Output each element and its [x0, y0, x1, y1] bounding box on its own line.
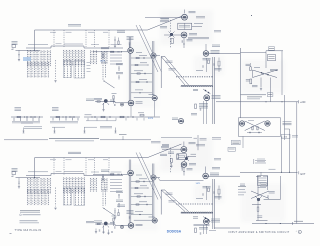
wire +100 feed (top right) — [241, 93, 273, 97]
interstage link (channel B) — [131, 212, 153, 215]
interstage coupling row 3 (channel B) — [131, 194, 153, 197]
vertical output pair (channel A) — [213, 57, 215, 124]
transistor Q13 (channel A) — [103, 99, 110, 105]
fan interior labels (channel B) — [166, 193, 176, 202]
corner mark — [10, 232, 12, 234]
svg-text:INPUT AMPLIFIER & SWITCHING CI: INPUT AMPLIFIER & SWITCHING CIRCUIT — [229, 231, 290, 234]
interstage coupling row 2 (channel B) — [131, 186, 148, 189]
wire switch tubes left (channel A) — [145, 18, 182, 35]
delay line upper contact row (channel B) — [176, 203, 213, 205]
transistor Q114 (channel B) — [120, 225, 123, 228]
label box +12.2 (top right) — [268, 55, 276, 61]
switch shaft dashed line (channel A) — [55, 60, 57, 79]
wire multivibrator to interconnect boxes — [242, 136, 244, 148]
triode V243A (channel B upper) — [128, 170, 134, 176]
switch SW102 wafer 4 contacts (channel B) — [103, 189, 115, 216]
cathode network below V263B — [195, 224, 216, 234]
density shading commutator B — [160, 138, 213, 172]
grid wire to V263B (channel B) — [158, 178, 204, 181]
page registration mark — [251, 15, 252, 16]
switch SW101 wafer 1 contacts (channel B) — [27, 178, 51, 195]
triode V143B (channel A upper) — [151, 53, 156, 58]
diagonal wire bus-to-switch tube (channel A) — [148, 16, 182, 30]
switch SW102 wafer 1 contacts (channel B) — [27, 189, 49, 205]
wire input B to attenuator — [16, 177, 41, 178]
switching crossover junction (channel B) — [184, 156, 189, 161]
compensating capacitor C7 (channel A) — [116, 73, 123, 80]
output amplifier tube V263B (channel B) — [203, 219, 220, 225]
svg-text:EXT: EXT — [301, 173, 306, 176]
triode V133B (channel A) — [134, 95, 158, 117]
input connector J1 (channel A) — [12, 42, 18, 51]
interstage bus with components (channel A) — [84, 113, 160, 121]
column value labels (channel B wafers) — [28, 170, 122, 173]
triode V233B (channel B) — [134, 217, 158, 223]
wire collector (bottom right) — [264, 176, 281, 200]
density shading right network B — [241, 184, 285, 222]
neon switching box B167 — [178, 23, 203, 29]
switch SW1 wafer 2 contacts (channel A) — [63, 50, 85, 67]
grid components cluster (channel B tubes) — [114, 205, 134, 219]
labels left of switch tubes (channel B) — [160, 146, 169, 155]
wire switch tube left (channel B) — [162, 144, 181, 149]
density shading plate cluster A — [194, 56, 224, 75]
preamp input wire (channel B) — [86, 221, 115, 225]
long vertical x297 (right) — [296, 102, 298, 224]
interstage link (channel A) — [131, 90, 153, 94]
wire Q113 collector (channel B) — [108, 224, 129, 225]
blue annotation (attenuator right) — [100, 61, 106, 63]
triode V243B (channel B upper) — [151, 175, 156, 180]
long vertical x284 (right) — [284, 95, 286, 140]
wire Q13 collector (channel A) — [108, 102, 129, 103]
interstage coupling row 2 (channel A) — [131, 63, 148, 66]
light blue highlight (attenuator) — [23, 57, 31, 61]
cross-coupled signal wires (top right) — [253, 68, 279, 78]
commutator right labels (channel B) — [196, 145, 221, 160]
triode V133A (channel A) — [128, 100, 142, 116]
switch SW2 wafer 2 contacts (channel A) — [63, 61, 71, 78]
input RC to ground (channel A) — [18, 50, 20, 61]
transistor Q113 (channel B) — [103, 222, 110, 228]
note labels left (bottom right) — [238, 187, 246, 195]
interstage coupling row 1 (channel A) — [131, 55, 153, 58]
delay line coil winding (channel A) — [181, 85, 212, 86]
emitter network R21 C21 (channel A) — [112, 94, 117, 106]
plate supply boundary vertical (top right) — [240, 48, 242, 118]
delay line coil winding (channel B) — [181, 212, 212, 213]
rail labels above divider — [24, 126, 112, 128]
blue annotation (channel A mid) — [148, 118, 154, 120]
vertical feed right of commutator B — [198, 135, 207, 150]
attenuator value table (channel A) — [110, 52, 122, 64]
cathode network below V163B — [191, 101, 208, 124]
triode V233A (channel B) — [128, 223, 142, 229]
density shading right network A — [241, 60, 285, 93]
labels above EXT area — [254, 159, 266, 164]
delay-line fan wires (channel A) — [161, 57, 188, 89]
multivibrator label V193 — [283, 122, 292, 125]
switch SW1 wafer 3 contacts (channel A) — [90, 50, 97, 64]
resistor R259 and ground (channel B) — [170, 159, 172, 168]
switch SW2 wafer 3 contacts (channel A) — [74, 61, 85, 79]
ground preamp (channel A) — [102, 103, 104, 111]
+100 supply labels — [282, 134, 299, 138]
output cathode follower V163A — [203, 44, 240, 56]
ground preamp (channel B) — [102, 226, 104, 234]
switch shaft dashed line (channel B) — [55, 188, 57, 207]
input coupling network wire (channel A left) — [11, 116, 43, 123]
input RC to ground (channel B) — [18, 178, 20, 189]
wire preamp row upper (channel A) — [93, 48, 160, 61]
emitter network (bottom right) — [252, 201, 262, 221]
resistor R158 — [160, 19, 173, 44]
wire preamp row upper (channel B) — [93, 170, 160, 183]
EXT trigger wire — [240, 169, 306, 176]
label above stamp — [194, 224, 210, 225]
vertical feeds (bottom right) — [256, 176, 268, 196]
wire -12.2 supply (bottom) — [252, 221, 314, 225]
svg-text:TYPE 3A3 PLUG-IN: TYPE 3A3 PLUG-IN — [15, 229, 42, 232]
switch shaft dashed (commutator B) — [169, 148, 171, 174]
triode V143A (channel A upper) — [128, 48, 134, 54]
attenuator value table (channel B) — [110, 180, 122, 192]
ground at switch shaft B — [54, 208, 56, 210]
interstage coupling row 4 (channel A) — [131, 79, 153, 82]
multivibrator cross-coupling — [245, 121, 265, 134]
vertical output pair (channel B) — [213, 179, 240, 229]
density shading commutator A — [160, 10, 213, 45]
density shading center column A — [126, 40, 158, 108]
switch tube V153A — [182, 10, 196, 21]
plate load cluster (channel B output) — [196, 186, 222, 201]
wires from multivibrator down — [282, 129, 290, 172]
input resistor network R10 label (channel A) — [15, 108, 22, 111]
plate load cluster (channel A output) — [196, 58, 222, 73]
column value labels (channel A wafers) — [28, 43, 122, 46]
input coupling network wire (channel A right) — [50, 116, 80, 123]
diagonal signal pair (channel switch B) — [136, 153, 162, 200]
switching crossover junction — [169, 32, 175, 38]
output cathode follower V263A (channel B) — [203, 167, 240, 179]
labels left of switch tubes (channel A) — [160, 19, 169, 28]
capacitor C158 — [182, 38, 193, 48]
capacitor C258 — [182, 167, 193, 175]
grid components cluster (channel A tubes) — [114, 31, 134, 48]
switch index labels (channel A) — [87, 63, 91, 72]
emitter network (channel B) — [112, 216, 117, 228]
wire to channel B note — [188, 38, 209, 39]
channel divider rule with note — [4, 134, 161, 143]
trigger pickoff tube V173 — [172, 118, 184, 124]
switch SW102 wafer 3 contacts (channel B) — [74, 188, 85, 206]
plate line pair left (channel B) — [129, 160, 131, 223]
switch tube V253A (channel B) — [181, 142, 196, 153]
switch SW102 wafer 2 contacts (channel B) — [63, 188, 71, 205]
bus drop labels (channel B) — [50, 159, 108, 161]
vertical feed wires (top right) — [266, 51, 282, 95]
label SEE PARTS LIST (channel A bus) — [68, 25, 81, 26]
fan interior labels (channel A) — [166, 61, 176, 70]
density shading center column B — [126, 163, 158, 231]
switch SW101 wafer 2 contacts (channel B) — [63, 177, 85, 194]
label SEE PARTS LIST (channel B bus) — [68, 152, 81, 153]
blue annotation (channel B mid) — [196, 183, 202, 185]
input connector J101 (channel B) — [12, 169, 18, 179]
svg-text:+100: +100 — [282, 137, 288, 139]
switch SW1 wafer 1 contacts (channel A) — [27, 50, 51, 67]
switching multivibrator box — [239, 118, 281, 137]
ganged-switch bus (top, channel A) — [35, 30, 148, 50]
label row TO CHANNEL A SWITCHING (channel B top) — [161, 137, 197, 140]
transistor Q14 (channel A) — [120, 103, 123, 106]
label box +12.2 (bottom right) — [260, 183, 267, 186]
commutator right labels (channel A) — [196, 17, 221, 32]
plate line pair right (channel A) — [152, 41, 154, 95]
compensating capacitor C5 (channel A) — [116, 64, 123, 72]
grounds and caps row (channel B) — [95, 229, 113, 235]
wire input A to attenuator — [16, 50, 41, 51]
switch SW101 wafer 4 contacts (channel B) — [101, 178, 108, 192]
svg-text:1471: 1471 — [148, 118, 154, 120]
junction dots delay line (channel B) — [193, 217, 211, 222]
grid return components row (channel A bottom) — [23, 128, 117, 134]
title INPUT AMPLIFIER and SWITCHING CIRCUIT — [229, 230, 302, 234]
switch tube V153B — [181, 32, 197, 38]
ground at switch shaft A — [54, 81, 56, 83]
switch SW2 wafer 4 contacts (channel A) — [103, 62, 115, 89]
switch SW2 wafer 1 contacts (channel A) — [27, 62, 49, 78]
bus drop labels (channel A) — [50, 31, 108, 33]
delay line upper contact row (channel A) — [176, 76, 213, 78]
svg-text:+240: +240 — [300, 101, 306, 104]
compensating capacitors (channel B) — [116, 191, 123, 208]
reference diagrams note — [20, 211, 41, 223]
grid resistor and ground (top right) — [246, 78, 271, 102]
corner pointer (left of channel B net) — [240, 184, 245, 185]
ganged-switch bus (channel B) — [35, 158, 148, 178]
preamp input wire (channel A) — [86, 98, 115, 102]
interconnect label boxes (center right) — [212, 138, 240, 152]
resistor R258 — [168, 152, 179, 159]
switch shaft dashed (commutator) — [169, 20, 171, 48]
relay box below EXT wire — [258, 172, 268, 187]
interstage coupling row 1 (channel B) — [131, 179, 153, 182]
blue print stamp — [167, 230, 182, 234]
junction dots delay line (channel A) — [193, 89, 211, 94]
ground below switch tubes (channel B) — [181, 167, 183, 169]
interstage coupling row 3 (channel A) — [131, 71, 153, 74]
attenuator bus wire (channel A) — [26, 46, 123, 48]
neon switching box B267 — [177, 154, 196, 160]
note below (top right) — [247, 97, 262, 99]
wire +240 supply (top) — [216, 100, 306, 104]
input resistor network R60 label (channel A) — [52, 108, 59, 111]
density shading plate cluster B — [194, 184, 224, 203]
diagonal wire bus-to-switch tube (channel B) — [148, 144, 182, 158]
wire cathode (bottom right) — [256, 220, 268, 222]
diagonal signal pair (channel switch A) — [136, 25, 162, 72]
plate line pair left (channel A) — [129, 37, 131, 100]
delay-line fan wires (channel B) — [161, 190, 188, 215]
attenuator bus wire (channel B) — [26, 174, 123, 176]
resistor R187 (top right) — [246, 63, 252, 71]
wire +350 supply (top right) — [266, 47, 283, 51]
svg-text:1471: 1471 — [100, 61, 106, 63]
output amplifier tube V163B — [204, 95, 221, 101]
switch SW1 wafer 4 contacts (channel A) — [101, 51, 108, 65]
svg-text:DODOSA: DODOSA — [167, 230, 182, 234]
plate line pair right (channel B) — [152, 164, 154, 218]
interstage coupling row 4 (channel B) — [131, 202, 153, 205]
switch SW101 wafer 3 contacts (channel B) — [90, 178, 97, 192]
wire bus link (top right) — [241, 52, 267, 54]
transistor Q293 cluster (bottom right) — [251, 191, 275, 201]
multivibrator tube V193A — [239, 121, 244, 126]
multivibrator tube V193B — [265, 121, 270, 126]
type label TYPE 3A3 PLUG-IN — [15, 229, 42, 232]
switch tube V253B (channel B) — [181, 162, 196, 168]
